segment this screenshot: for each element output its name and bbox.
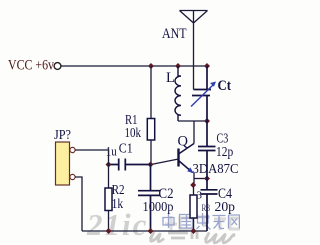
Ct arrow	[191, 82, 216, 107]
watermark gray ghost characters	[165, 215, 240, 230]
svg-text:1k: 1k	[112, 197, 124, 212]
svg-text:1u: 1u	[106, 144, 117, 159]
resistor R2	[105, 165, 112, 232]
wire emitter to C3/C4 node	[194, 178, 207, 180]
Q emitter arrow	[187, 167, 193, 173]
resistor R3	[190, 186, 197, 231]
svg-text:21ic: 21ic	[86, 207, 148, 242]
wire R1 to base node	[150, 140, 152, 165]
svg-text:1000p: 1000p	[143, 200, 174, 215]
svg-text:VCC +6v: VCC +6v	[8, 57, 55, 73]
connector JP1	[56, 142, 76, 185]
wire JP pin2 to ground rail	[75, 177, 82, 231]
svg-text:20p: 20p	[215, 200, 236, 215]
node: junction dot base	[148, 162, 154, 168]
watermark 21ic gray text	[86, 207, 148, 242]
svg-text:10k: 10k	[125, 126, 142, 141]
svg-text:Q: Q	[178, 134, 189, 150]
wire base	[151, 159, 179, 165]
wire VCC rail	[61, 65, 207, 67]
capacitor C3	[198, 121, 216, 179]
node: junction dot R3-rail	[191, 228, 197, 234]
wire tank bottom	[178, 120, 207, 122]
antenna ANT	[180, 11, 208, 90]
variable capacitor Ct	[192, 66, 211, 121]
node: junction dot C1-R2	[106, 162, 112, 168]
VCC terminal circle	[54, 63, 61, 70]
node: junction dot R2-rail	[106, 228, 112, 234]
capacitor C4	[201, 179, 218, 232]
capacitor C2	[138, 165, 160, 232]
svg-text:ANT: ANT	[162, 26, 187, 42]
watermark blue chinese characters	[162, 213, 240, 230]
wire bottom rail	[82, 230, 207, 232]
wire JP pin1 to C1	[75, 150, 108, 165]
inductor L	[175, 66, 181, 121]
node: junction dot C3-C4	[204, 176, 210, 182]
svg-text:12p: 12p	[216, 145, 233, 160]
node: junction dot C2-rail	[148, 228, 154, 234]
wire collector	[193, 121, 195, 144]
wire rail to R1	[150, 66, 152, 119]
wire emitter down	[193, 173, 195, 186]
svg-text:JP?: JP?	[54, 127, 71, 142]
svg-text:R3: R3	[202, 204, 211, 214]
svg-text:3: 3	[197, 189, 203, 201]
transistor Q1 3DA87C	[179, 144, 195, 173]
node: junction dot emitter	[190, 182, 196, 188]
svg-text:3DA87C: 3DA87C	[193, 161, 239, 176]
resistor R1	[147, 119, 154, 141]
node: junction dot rail-L	[175, 63, 181, 69]
node: junction dot rail-R1	[148, 63, 154, 69]
node: junction dot tank-Ct bottom	[204, 118, 210, 124]
node: junction dot rail-Ct	[204, 63, 210, 69]
watermark gray swirls bottom right	[150, 231, 234, 243]
svg-text:Ct: Ct	[218, 78, 232, 94]
svg-text:L: L	[166, 70, 175, 86]
capacitor C1	[109, 159, 152, 171]
svg-text:C1: C1	[119, 141, 133, 156]
